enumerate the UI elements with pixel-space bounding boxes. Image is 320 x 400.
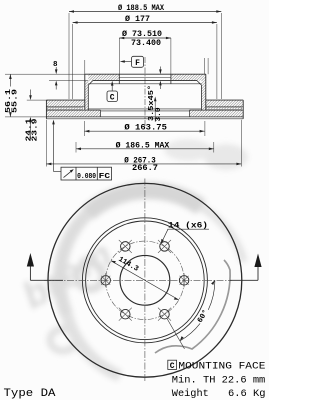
bore recess mid line	[119, 76, 171, 78]
svg-text:23.9: 23.9	[32, 118, 40, 142]
bolt hole bottom-right	[158, 308, 171, 321]
right skirt outer face	[205, 74, 207, 110]
middle visible line cheek top	[101, 110, 190, 112]
outer circle	[48, 183, 242, 377]
svg-text:73.400: 73.400	[131, 39, 161, 48]
chamfer note 3.5x45	[147, 85, 163, 122]
svg-text:Type DA: Type DA	[4, 388, 56, 400]
svg-text:Ø 186.5 MAX: Ø 186.5 MAX	[116, 141, 170, 150]
ext above right 204.3	[203, 58, 205, 74]
hat circle	[86, 221, 205, 340]
svg-text:3.0: 3.0	[155, 107, 163, 122]
horizontal centerline	[44, 279, 232, 281]
svg-text:8: 8	[53, 61, 58, 69]
cut arrow right	[230, 254, 262, 281]
watermark brembo logo swoosh	[16, 139, 249, 376]
cut arrow left	[27, 253, 63, 280]
flange top face	[85, 73, 206, 75]
dimension 8 flange thickness	[55, 67, 58, 90]
svg-text:FC: FC	[99, 173, 111, 181]
left skirt inner face	[87, 85, 89, 110]
right chamfer	[197, 81, 202, 86]
svg-text:Ø 188.5 MAX: Ø 188.5 MAX	[118, 4, 164, 13]
dimension 56.1/55.9 hat height	[5, 74, 19, 117]
flange bottom ext left	[49, 80, 88, 82]
bore wall left	[118, 74, 120, 84]
friction inner circle	[82, 218, 207, 343]
svg-text:MOUNTING FACE: MOUNTING FACE	[178, 362, 265, 373]
svg-text:Weight: Weight	[172, 388, 209, 400]
datum C	[107, 81, 118, 102]
right skirt hatch	[202, 81, 206, 111]
bottom silhouette line	[46, 118, 243, 120]
section centerline	[144, 57, 146, 127]
vane rib section right	[207, 107, 242, 109]
angular dimension 60 deg	[167, 280, 215, 349]
bolt hole left	[101, 273, 111, 287]
inner cheek end right	[189, 110, 191, 117]
feature control frame runout 0.080 FC	[52, 120, 111, 180]
right outer cheek hatch	[206, 100, 243, 107]
left outer cheek hatch	[46, 100, 84, 107]
vertical centerline	[144, 179, 146, 383]
ring bottom face	[46, 116, 243, 118]
vane rib section left	[48, 108, 83, 110]
left skirt hatch	[85, 81, 89, 111]
left chamfer	[88, 81, 93, 86]
dimension 24.1/23.9 disc thickness	[25, 90, 46, 142]
dimension Ø 267.3/266.7	[46, 120, 241, 167]
vane roof left	[46, 106, 84, 108]
svg-text:C: C	[110, 93, 115, 102]
ring bottom ext left	[5, 116, 46, 118]
vane floor left	[46, 109, 100, 111]
middle visible line vane	[88, 108, 201, 110]
label 14 (x6)	[161, 221, 209, 244]
vane roof right	[206, 106, 243, 108]
dimension Ø 163.75	[84, 121, 204, 136]
flange thickness arrows x160	[159, 67, 162, 90]
svg-text:Ø 163.75: Ø 163.75	[124, 124, 167, 133]
center bore	[120, 255, 170, 305]
flange hatch band left	[88, 74, 119, 80]
table C box	[168, 360, 177, 369]
ring top face right	[206, 99, 243, 101]
bolt hole right	[179, 273, 189, 287]
svg-text:F: F	[135, 59, 140, 68]
svg-text:266.7: 266.7	[132, 164, 158, 173]
dimension Ø 188.5 MAX	[69, 10, 221, 99]
svg-text:55.9: 55.9	[12, 88, 20, 113]
inner cheek end left	[100, 110, 102, 117]
hat interior far edge	[88, 83, 201, 85]
svg-text:6.6 Kg: 6.6 Kg	[228, 389, 266, 400]
bolt hole top-right	[158, 240, 171, 253]
ext above flange left edge	[84, 60, 86, 74]
dimension Ø 73.510/73.400 center bore	[119, 37, 171, 74]
bolt circle	[106, 241, 184, 319]
left inner cheek hatch	[46, 110, 100, 117]
svg-text:Min. TH 22.6 mm: Min. TH 22.6 mm	[172, 374, 265, 386]
dimension Ø 177	[73, 21, 217, 99]
ring outer edge left	[45, 100, 47, 119]
ring outer edge right	[242, 100, 244, 119]
svg-text:C: C	[170, 362, 175, 371]
ext above right 208.1	[207, 58, 209, 74]
svg-text:0.080: 0.080	[77, 173, 96, 181]
dimension Ø 114.3 bolt circle	[111, 256, 179, 300]
ring top face left	[46, 99, 84, 101]
flange bottom face	[93, 80, 197, 82]
right inner cheek hatch	[190, 110, 244, 117]
left skirt outer face	[84, 74, 86, 110]
datum F	[120, 56, 144, 67]
flange hatch band right	[171, 74, 206, 80]
svg-text:Ø 177: Ø 177	[125, 15, 150, 24]
bore wall right	[170, 74, 172, 84]
bolt hole bottom-left	[119, 308, 132, 321]
vane floor right	[190, 109, 244, 111]
right skirt inner face	[201, 85, 203, 110]
bolt hole top-left	[119, 240, 132, 253]
flange top ext to left	[5, 73, 85, 75]
dimension Ø 186.5 MAX	[76, 142, 214, 153]
